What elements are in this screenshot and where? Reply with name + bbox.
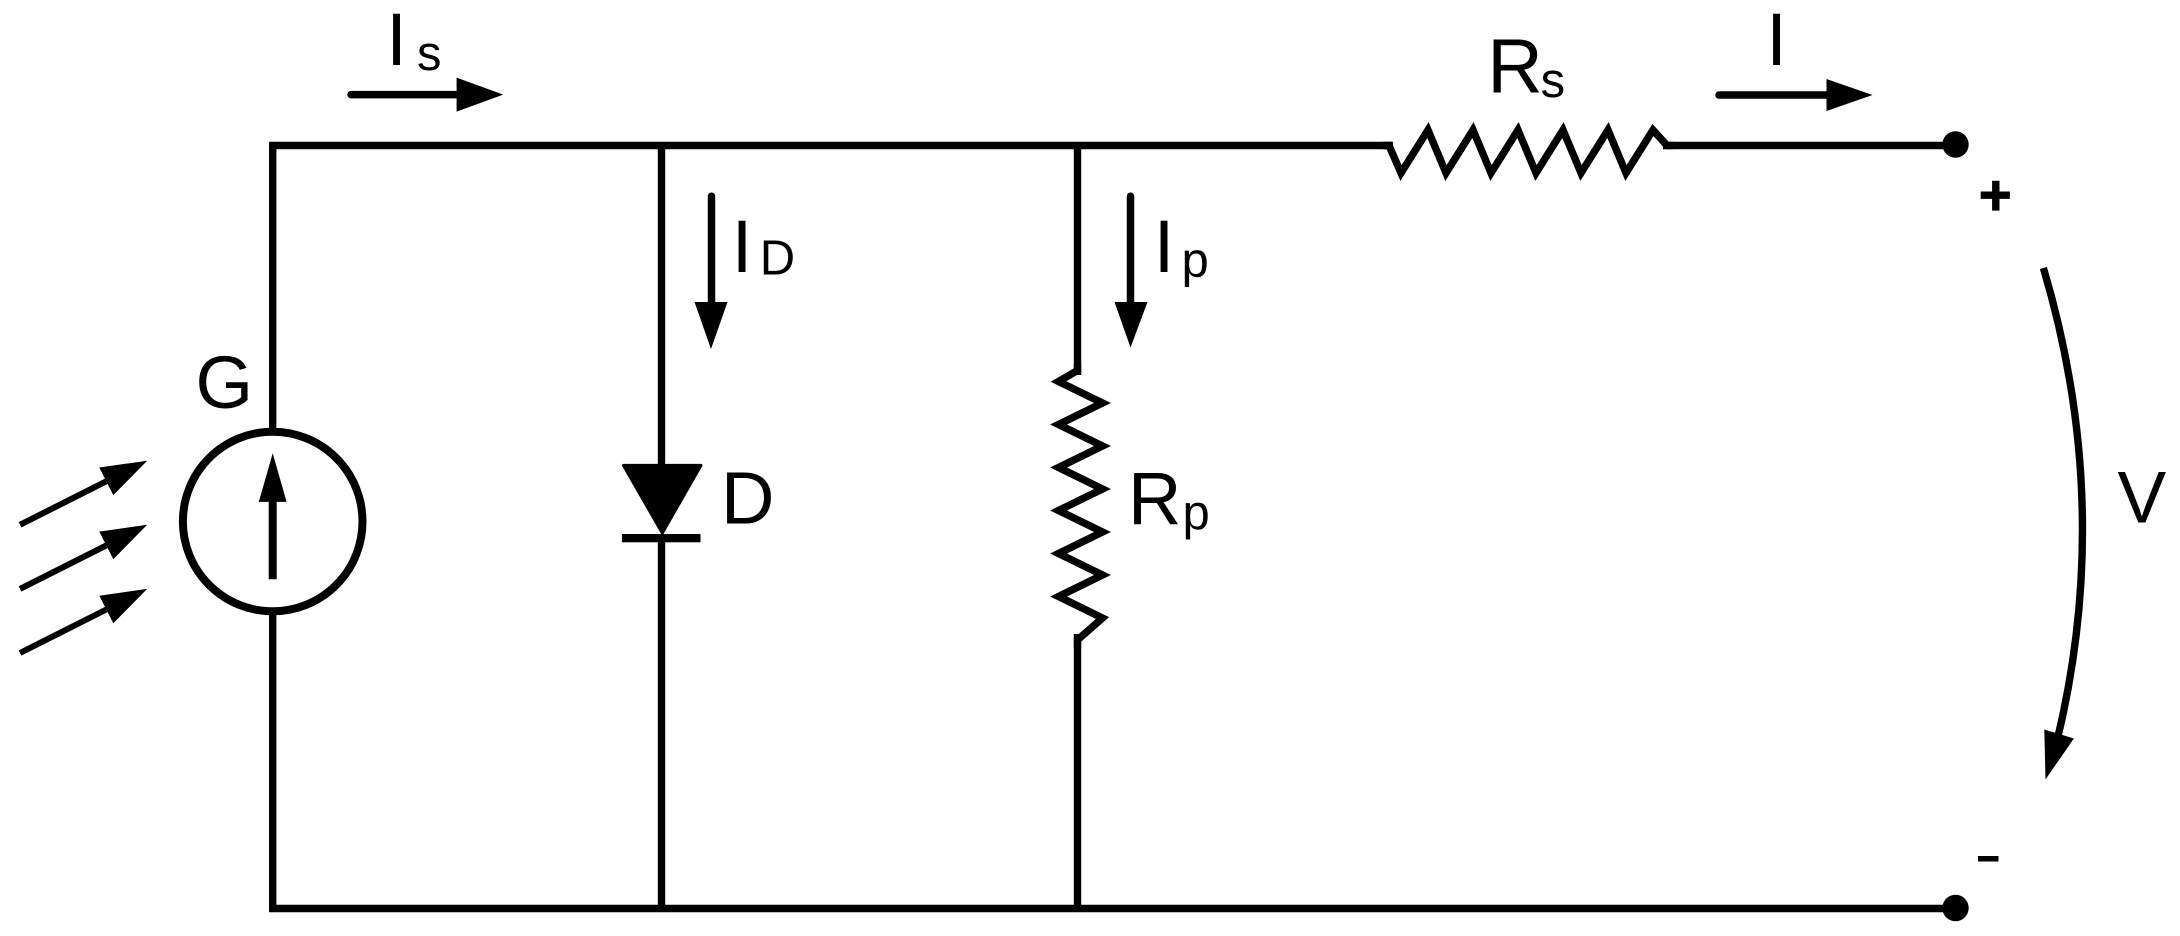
resistor Rs: [1383, 130, 1673, 173]
current source G (circle with up arrow): [183, 432, 363, 612]
voltage arc V: [2043, 268, 2082, 780]
wire diode branch top: [658, 142, 665, 467]
light arrow 1: [20, 461, 147, 525]
svg-text:I: I: [1766, 0, 1787, 81]
wire top rail (node A: source to Rs): [269, 142, 1393, 149]
svg-text:D: D: [760, 232, 795, 286]
svg-text:R: R: [1128, 457, 1181, 540]
svg-text:I: I: [732, 205, 753, 288]
svg-text:V: V: [2118, 458, 2167, 539]
svg-text:I: I: [386, 0, 407, 81]
label ID: [732, 205, 795, 288]
wire left rail top (node A to current source): [269, 142, 276, 432]
plus sign: [1981, 181, 2010, 211]
resistor Rp: [1059, 364, 1103, 648]
arrow Is: [351, 78, 503, 112]
arrow ID: [695, 196, 728, 349]
label Ip: [1154, 205, 1209, 288]
svg-text:D: D: [721, 457, 774, 540]
wire bottom rail: [269, 905, 1955, 912]
wire diode branch bottom: [658, 540, 665, 912]
svg-text:p: p: [1183, 487, 1210, 541]
svg-text:p: p: [1182, 234, 1209, 288]
arrow I: [1719, 79, 1873, 111]
svg-text:G: G: [196, 341, 254, 424]
minus sign: [1978, 856, 1999, 862]
wire top rail right (Rs to + terminal): [1663, 142, 1956, 149]
label Is: [386, 0, 441, 81]
node - terminal dot: [1942, 895, 1968, 921]
node + terminal dot: [1942, 131, 1968, 157]
svg-text:R: R: [1487, 24, 1543, 110]
light arrow 2: [20, 525, 147, 589]
wire shunt branch bottom: [1074, 634, 1081, 912]
svg-text:s: s: [1541, 54, 1566, 108]
wire shunt branch top: [1074, 142, 1081, 375]
light arrow 3: [20, 589, 147, 653]
wire left rail bottom (current source to bottom rail): [269, 612, 276, 913]
svg-text:I: I: [1154, 205, 1175, 288]
arrow Ip: [1115, 196, 1148, 347]
svg-text:s: s: [417, 27, 442, 81]
label Rp: [1128, 457, 1210, 541]
diode D: [622, 465, 701, 542]
label Rs: [1487, 24, 1565, 110]
